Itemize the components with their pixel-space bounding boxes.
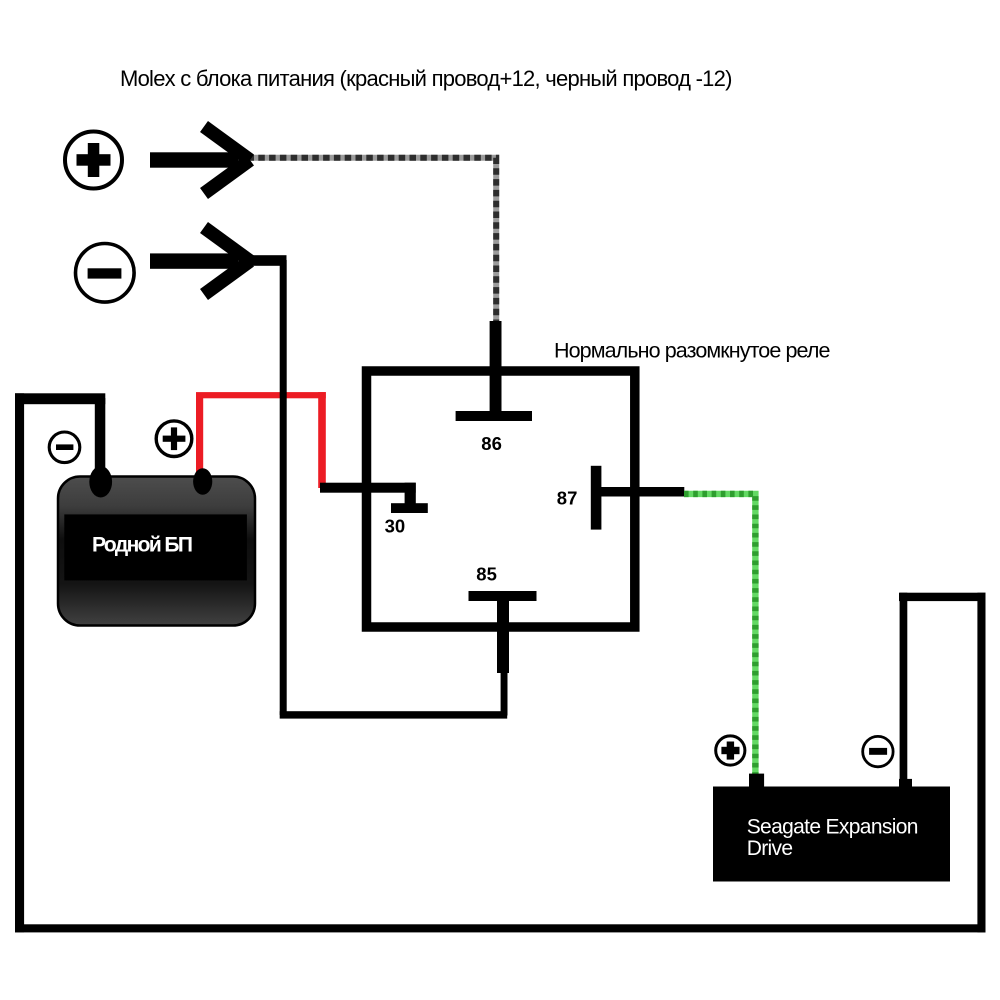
svg-text:87: 87 [557, 487, 578, 508]
wire: black down to Seagate minus [900, 593, 908, 779]
Seagate terminal minus tab [899, 779, 912, 787]
relay pin 86 [456, 321, 532, 421]
plus source symbol [65, 132, 122, 189]
minus source symbol [76, 243, 135, 302]
relay pin 87 [591, 466, 685, 530]
svg-text:Seagate Expansion: Seagate Expansion [747, 816, 918, 839]
Seagate Expansion Drive box [713, 774, 950, 882]
wire: black left vertical [15, 393, 24, 932]
svg-text:Molex с блока питания (красный: Molex с блока питания (красный провод+12… [120, 66, 732, 91]
PSU minus symbol [49, 432, 80, 463]
svg-text:Родной БП: Родной БП [92, 534, 192, 557]
PSU terminal minus [89, 466, 112, 497]
svg-text:30: 30 [385, 515, 406, 536]
wire: black from PSU minus terminal up [95, 398, 106, 472]
Seagate minus symbol [863, 736, 893, 766]
wire: black top-right horizontal [899, 593, 986, 601]
svg-text:Drive: Drive [747, 837, 793, 860]
wire: black right vertical [977, 593, 985, 933]
wire: black top-left horizontal [15, 393, 105, 404]
PSU plus symbol [156, 421, 192, 457]
Seagate plus symbol [716, 736, 745, 765]
wire: green dashed relay 87 to Seagate plus [684, 494, 755, 776]
Seagate terminal plus tab [749, 774, 764, 787]
arrow from -12 [150, 228, 250, 295]
wire: bottom horizontal to relay pin 85 [280, 711, 508, 718]
svg-text:86: 86 [481, 433, 502, 454]
wire: gray dashed +12 to relay pin 86 [248, 158, 497, 322]
svg-text:Нормально разомкнутое реле: Нормально разомкнутое реле [554, 339, 830, 363]
PSU terminal plus [193, 468, 212, 494]
relay pin 85 [469, 591, 537, 716]
PSU battery body: Родной БП [58, 466, 255, 625]
relay box [367, 371, 635, 627]
arrow from +12 [150, 127, 250, 194]
wire: black -12 from arrow to bottom node [246, 255, 287, 266]
wire: red +12 from PSU to relay pin 30 [196, 392, 326, 488]
svg-text:85: 85 [476, 564, 497, 585]
relay pin 30 [320, 483, 428, 513]
wire: black bottom horizontal [15, 924, 986, 932]
